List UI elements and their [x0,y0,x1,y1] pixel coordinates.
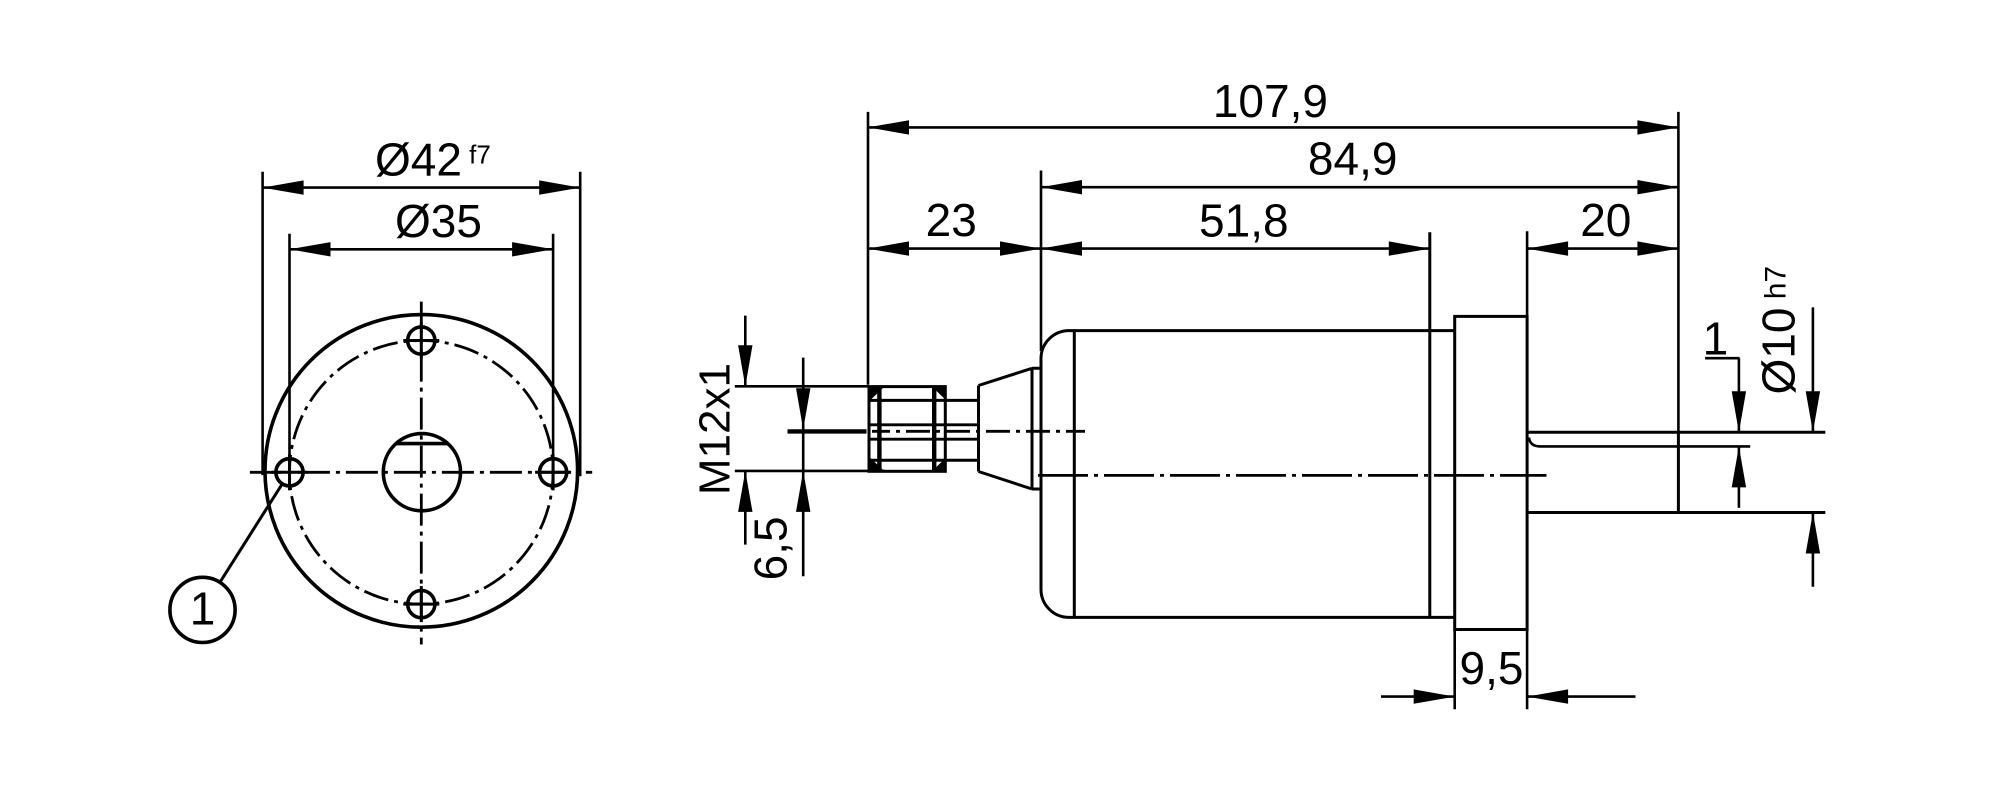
body right seam / 51,8 extension line [1428,232,1431,617]
bolt hole left [272,454,308,490]
extension line at body front (84,9 / 23 / 51,8) [1040,171,1043,352]
connector centerline (dash-dot) [872,430,1085,433]
dimension 1 arrows [1732,358,1746,508]
extension line at flange face (20) [1526,231,1529,316]
dimension Ø42 f7 line with arrows [263,180,581,194]
callout balloon circle [170,577,235,642]
vertical centerline of front view [420,302,423,645]
dimension Ø10 h7 arrows [1806,307,1820,586]
svg-text:6,5: 6,5 [745,516,797,580]
dimension 1 stub line [1705,357,1740,360]
body centerline (dash-dot) [1038,474,1547,477]
dimension Ø35 extension lines [288,234,291,487]
shaft step line with fillet [1529,438,1750,447]
dimension M12x1 arrows [738,316,752,545]
dimension Ø42 f7 extension lines [261,172,264,475]
bolt hole bottom [403,586,439,622]
shaft top line [1527,431,1825,434]
thread relief outline [868,399,979,402]
horizontal centerline of front view [250,471,592,474]
body cap seam line [1073,331,1076,618]
shaft end face [1677,432,1680,512]
callout leader line to bolt hole [220,484,283,583]
svg-text:Ø35: Ø35 [395,195,482,247]
svg-text:51,8: 51,8 [1199,194,1289,246]
flange outer circle [265,315,578,628]
mounting flange plate [1455,316,1527,629]
dimension 9,5 extension lines [1453,631,1456,710]
dimension 20 [1527,241,1678,255]
dimension 51,8 [1041,241,1430,255]
dimension M12x1 bottom reference line [735,470,885,473]
shaft bottom line [1527,511,1825,514]
bolt hole right [535,454,571,490]
dimension M12x1 top reference line [735,385,869,388]
svg-text:107,9: 107,9 [1213,75,1328,127]
svg-text:M12x1: M12x1 [691,363,740,495]
M12 connector nut outline [869,387,945,472]
extension line at connector face (107,9 / 23) [867,112,870,385]
dimension 6,5 arrows [796,358,810,577]
svg-text:84,9: 84,9 [1308,133,1398,185]
svg-text:9,5: 9,5 [1460,642,1524,694]
cone taper top [979,368,1033,385]
svg-text:1: 1 [190,583,216,635]
dimension 23 [868,241,1041,255]
extension line at shaft end (107,9 / 84,9 / 20) [1677,112,1680,432]
svg-text:1: 1 [1703,313,1729,365]
cone ring [1032,368,1041,489]
cone taper bottom [979,472,1033,490]
dimension 9,5 arrows (outside) [1381,689,1636,703]
dimension Ø35 line with arrows [290,242,554,256]
dimension 107,9 [868,120,1678,134]
cone left face [977,386,980,472]
dimension 84,9 [1041,180,1678,194]
nut hex flat lines [877,387,881,472]
body outline (rounded left corners) [1041,331,1455,618]
bolt circle (dash-dot) [290,341,554,605]
center shaft hole with flat [383,434,460,511]
bolt hole top [403,323,439,359]
dimension 6,5 reference stub (solid centerline overlap) [788,429,867,433]
connector bore lines [869,423,979,426]
svg-text:20: 20 [1580,194,1631,246]
svg-text:23: 23 [926,194,977,246]
